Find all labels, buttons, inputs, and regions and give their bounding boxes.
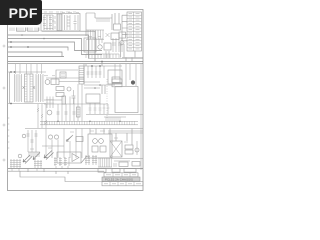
resistor R6 (77, 107, 81, 117)
wire top staircase bus (21, 34, 45, 39)
connector pins CN2 (28, 152, 40, 157)
diode D7 (81, 156, 87, 163)
title block cells (104, 173, 138, 177)
capacitor C2 (65, 15, 79, 30)
transformer T1 primary (8, 71, 46, 102)
connector pins below badge (10, 28, 39, 32)
wire staircase (8, 31, 102, 61)
transistor Q1 (98, 45, 102, 49)
optocoupler U3 (48, 135, 58, 139)
capacitor C8 bank (54, 157, 69, 169)
capacitor C4 bank (46, 97, 54, 109)
node A stubs (8, 41, 102, 56)
resistor R2 (56, 87, 64, 91)
capacitor C9 (85, 155, 97, 165)
registration tick left (3, 45, 6, 162)
border frame (8, 10, 144, 191)
degauss coil block (86, 13, 112, 36)
diode D2 (27, 130, 38, 152)
bridge rectifier BR1 (110, 141, 122, 157)
wire long low bus (25, 128, 143, 130)
wire right drops (115, 64, 141, 170)
regulator block (104, 43, 111, 50)
diode D5 (33, 153, 40, 160)
diode D3 (66, 135, 73, 142)
snubber box (51, 79, 59, 85)
comparator U5 (57, 152, 81, 163)
comb bottom of CRT (86, 115, 143, 122)
wire vertical drops center (58, 84, 82, 121)
wire stub drops (28, 169, 68, 175)
wire T1 bottom (8, 72, 46, 104)
wire main bus H2 (8, 63, 143, 65)
capacitor C10 (72, 90, 76, 104)
diode D6 (44, 151, 54, 160)
node B dot (131, 80, 135, 84)
transistor Q4 (47, 110, 52, 115)
driver box (56, 59, 143, 85)
small cells above title (98, 169, 136, 172)
resistor R3 (56, 93, 64, 97)
resistor R1 (67, 15, 70, 30)
pin comb row (86, 30, 104, 40)
IC U1 block (84, 38, 96, 52)
wire mid horizontals (8, 82, 115, 94)
PDF badge (0, 0, 42, 25)
tiny text noise top (30, 12, 128, 149)
capacitor C5 plates (57, 112, 76, 114)
wire left drops (37, 104, 47, 128)
capacitor bank C6 (10, 159, 21, 171)
capacitor C3 group (99, 38, 122, 58)
transistor Q3 (67, 87, 71, 91)
label box L2 (112, 79, 122, 87)
connector CN1 ladder (127, 12, 142, 51)
svg-text:PCL52.2A CHASSIS: PCL52.2A CHASSIS (105, 177, 133, 181)
CRT block U2 (115, 87, 138, 113)
transformer T1 secondary (25, 74, 34, 102)
resistor R4 (76, 137, 83, 142)
transistor Q7 (18, 154, 22, 158)
wire bottom bus1 (8, 168, 143, 170)
filter box (108, 70, 122, 84)
wire bus to T1 (16, 64, 42, 74)
dashed net line (106, 79, 108, 118)
transistor Q8 (22, 134, 26, 138)
diode D4 (23, 155, 32, 164)
wire bottom bus2 (8, 170, 104, 172)
transistor Q6 (119, 32, 126, 58)
wire center feeds (44, 78, 108, 104)
title bar (102, 177, 140, 181)
diode D1 (106, 33, 120, 40)
transistor Q2 (45, 80, 50, 85)
title row2 (102, 182, 143, 186)
node X marks (23, 86, 36, 89)
component row boxes (40, 121, 138, 125)
wire lower drops (42, 129, 82, 159)
wire ladder feeds (122, 15, 143, 57)
amplifier block (86, 94, 110, 114)
resistor R7 (62, 96, 66, 104)
wire main bus H1 (8, 61, 143, 63)
resistor R5 (125, 145, 133, 154)
wire right low (90, 129, 143, 146)
regulator block U4 (88, 134, 112, 158)
transformer T1 tertiary (36, 74, 43, 102)
transistor Q5 (135, 141, 139, 155)
input block box (41, 14, 80, 32)
connector CN3 comb (98, 158, 112, 167)
left frame ticks (8, 118, 10, 148)
capacitor C7 (34, 160, 42, 171)
wire bottom step (20, 171, 104, 181)
pin ladder small (79, 66, 84, 84)
capacitor bank C1 (43, 15, 55, 30)
text labels top (44, 11, 79, 14)
pin comb center (86, 54, 119, 58)
secondary rail box (84, 64, 122, 84)
transformer winding block (44, 14, 62, 31)
wire bus drops (86, 58, 132, 67)
fuse F1 (114, 13, 121, 30)
wire right above title (112, 159, 143, 168)
